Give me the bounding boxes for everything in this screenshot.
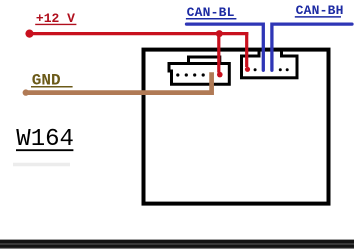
GND wire end cap xyxy=(23,89,29,95)
connector J1 key tab xyxy=(189,57,220,64)
connector J1 body xyxy=(169,64,229,85)
svg-text:CAN-BL: CAN-BL xyxy=(187,5,235,20)
J2 +12V pin dot xyxy=(245,67,250,72)
W164 underline xyxy=(16,149,73,151)
wire +12V branch to J1 xyxy=(217,32,220,73)
bottom band inner light line xyxy=(0,243,354,245)
bottom band lower light line xyxy=(0,247,354,249)
+12 V underline xyxy=(35,23,76,25)
wire GND xyxy=(26,72,212,92)
connector J2 body xyxy=(242,56,298,78)
wire CAN-BL xyxy=(187,24,264,70)
svg-text:W164: W164 xyxy=(16,126,74,153)
ghost artifact line under W164 xyxy=(13,163,70,167)
CAN-BL underline xyxy=(186,18,237,20)
wire CAN-BH xyxy=(272,24,352,70)
bottom window edge band xyxy=(0,240,354,249)
ECU module box W164 xyxy=(144,50,329,204)
+12V supply dot xyxy=(25,29,33,37)
connector J2 notch left stub xyxy=(258,49,261,58)
wire +12V drop to J2 xyxy=(245,32,248,67)
connector J2 top notch opening xyxy=(261,54,281,60)
connector J1 pin dots xyxy=(176,73,205,76)
+12V junction dot xyxy=(216,30,223,37)
GND underline xyxy=(31,86,73,88)
connector J2 notch right stub xyxy=(280,49,283,58)
svg-text:CAN-BH: CAN-BH xyxy=(296,3,344,18)
J1 +12V pin dot xyxy=(217,72,223,78)
wire +12V horizontal xyxy=(27,32,248,35)
CAN-BH underline xyxy=(295,16,341,18)
connector J2 pin dots xyxy=(254,68,289,71)
